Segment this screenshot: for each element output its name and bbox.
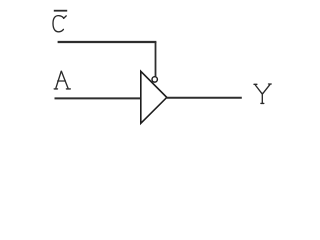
node C-bar label (letter C drawn as strokes) xyxy=(53,16,66,32)
overbar on C xyxy=(54,10,67,12)
bubble: active-low enable on top edge xyxy=(152,77,157,82)
wire: control vertical drop to bubble xyxy=(155,42,157,76)
wire: control horizontal xyxy=(58,41,157,43)
buffer U1 triangle xyxy=(141,71,167,123)
node A label (letter A drawn as strokes) xyxy=(54,71,70,89)
node Y label (letter Y drawn as strokes) xyxy=(254,84,271,103)
wire: output Y xyxy=(167,97,242,99)
wire: input A xyxy=(55,97,141,99)
